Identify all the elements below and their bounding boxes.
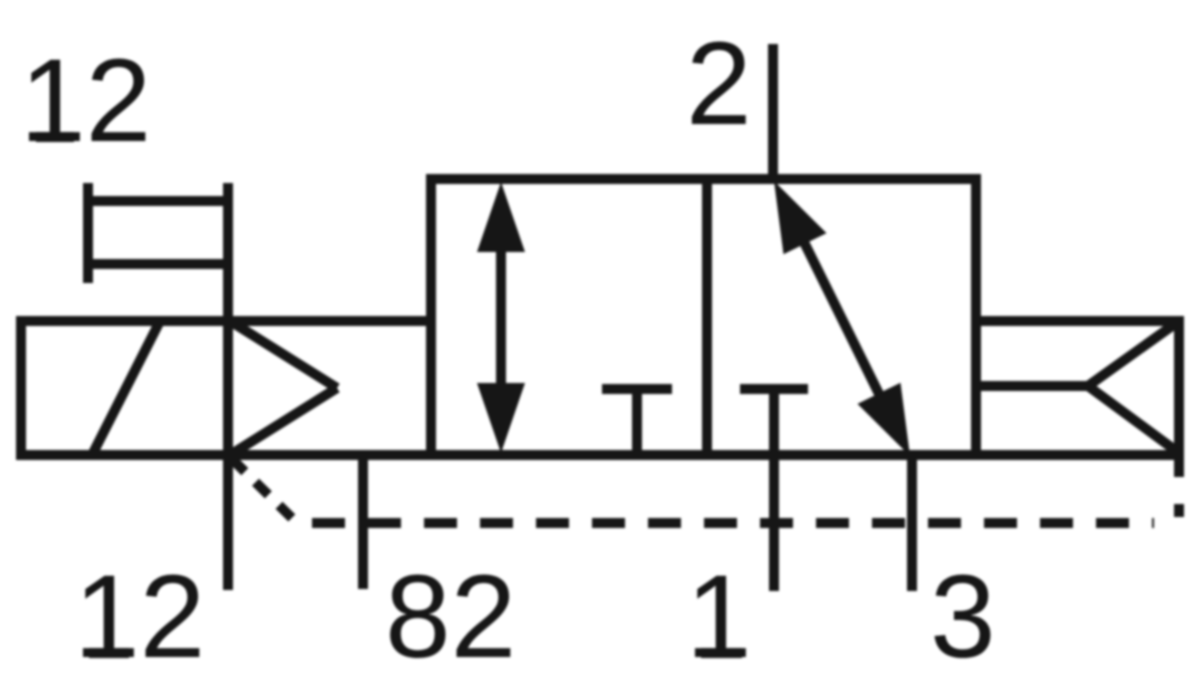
flow path 2-3, right position (diagonal double arrow)	[774, 181, 910, 456]
svg-text:82: 82	[385, 551, 516, 683]
svg-text:1: 1	[686, 551, 752, 683]
blocked port symbol, left position	[602, 389, 672, 455]
label 12 (port 12, bottom)	[74, 551, 205, 683]
label 12 (pilot port, top left)	[20, 35, 151, 167]
port 2 stub	[768, 44, 778, 184]
valve bottom edge	[16, 450, 1184, 460]
valve body (two position boxes)	[431, 179, 976, 455]
pilot port bracket 12	[83, 183, 228, 283]
air spring return box (right actuator)	[971, 316, 1184, 477]
port 1 stub	[769, 455, 779, 591]
pilot line (dashed)	[232, 459, 1179, 523]
solenoid slash	[92, 321, 160, 455]
solenoid actuator box	[16, 316, 436, 460]
flow arrow, left position (vertical double arrow)	[477, 182, 525, 453]
pilot line / port 12 stem (vertical)	[223, 183, 233, 590]
pilot return triangle (left-pointing chevron with stem)	[976, 321, 1179, 453]
svg-text:2: 2	[686, 18, 752, 150]
position divider	[702, 179, 712, 455]
label 82 (port 82)	[385, 551, 516, 683]
pilot triangle (right-pointing)	[230, 321, 337, 455]
label 1 (port 1)	[686, 551, 752, 683]
port 82 stub	[358, 455, 368, 589]
label 2 (port 2)	[686, 18, 752, 150]
svg-text:12: 12	[74, 551, 205, 683]
label 3 (port 3)	[930, 551, 996, 683]
port 3 stub	[907, 455, 917, 591]
svg-text:12: 12	[20, 35, 151, 167]
svg-text:3: 3	[930, 551, 996, 683]
blocked port 1 symbol, right position	[740, 389, 808, 455]
